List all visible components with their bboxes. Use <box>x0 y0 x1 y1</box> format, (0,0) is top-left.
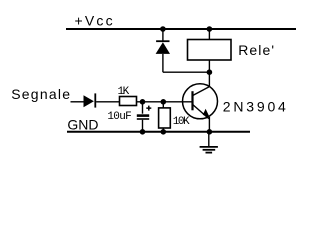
wire D2 anode down <box>162 54 164 72</box>
capacitor C1 bottom plate <box>137 118 149 120</box>
node junction R2 top <box>161 99 167 105</box>
resistor R2 10K box <box>159 108 171 128</box>
diode D2 flyback cathode bar <box>156 40 169 42</box>
diode D2 flyback triangle <box>156 42 170 54</box>
transistor Q1 base bar <box>191 91 193 110</box>
transistor Q1 collector diagonal <box>193 87 210 96</box>
transistor Q1 emitter arrow <box>203 109 210 118</box>
svg-text:+Vcc: +Vcc <box>75 13 115 29</box>
relay K1 coil box <box>188 40 232 61</box>
ground symbol bar 1 <box>200 146 218 148</box>
wire D2 cathode to +Vcc rail <box>162 29 164 41</box>
node junction C1 bottom <box>140 129 146 135</box>
wire relay bottom lead to collector <box>208 60 210 87</box>
wire C1 bottom lead <box>142 120 144 132</box>
wire to ground symbol <box>208 132 210 146</box>
svg-text:Rele': Rele' <box>238 42 275 58</box>
wire D1 cathode to R1 <box>96 101 119 103</box>
node junction R2 bottom <box>161 129 167 135</box>
svg-text:10uF: 10uF <box>107 111 131 123</box>
wire +Vcc rail <box>66 28 296 30</box>
transistor Q1 circle <box>183 84 218 119</box>
wire relay top lead <box>208 29 210 40</box>
wire R1 to base node <box>137 101 193 103</box>
diode D1 signal cathode bar <box>94 93 96 107</box>
node junction of D2 on +Vcc rail <box>160 26 166 32</box>
wire D2 anode to collector node <box>163 71 210 73</box>
ground symbol bar 2 <box>203 149 216 151</box>
transistor Q1 emitter diagonal <box>193 104 209 118</box>
node junction of relay on +Vcc rail <box>207 26 213 32</box>
svg-text:2N3904: 2N3904 <box>223 99 289 115</box>
node junction relay/diode/collector <box>207 69 213 75</box>
capacitor C1 top plate <box>137 114 149 117</box>
svg-text:GND: GND <box>67 116 98 132</box>
wire GND rail <box>67 131 250 133</box>
node junction C1 top <box>140 99 146 105</box>
wire R2 top lead <box>162 102 164 108</box>
node junction emitter on GND rail <box>207 129 213 135</box>
wire Segnale input <box>71 101 84 103</box>
resistor R1 1K box <box>120 97 137 106</box>
svg-text:Segnale: Segnale <box>11 86 71 102</box>
wire C1 top lead <box>142 102 144 114</box>
label + polarity of C1 <box>146 106 151 111</box>
svg-text:10K: 10K <box>173 116 190 128</box>
wire emitter to GND rail <box>208 117 210 132</box>
diode D1 signal triangle <box>84 95 94 107</box>
ground symbol bar 3 <box>206 152 213 154</box>
wire R2 bottom lead <box>162 128 164 132</box>
